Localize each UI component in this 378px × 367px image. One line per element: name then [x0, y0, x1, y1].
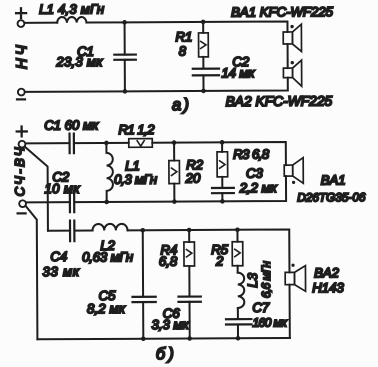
capacitor C1 (a) 23,3 мк [114, 55, 136, 60]
svg-text:23,3 мк: 23,3 мк [55, 54, 103, 69]
capacitor C2 (б) 10 мк [70, 193, 74, 213]
svg-text:14 мк: 14 мк [221, 65, 255, 80]
svg-text:R1 1,2: R1 1,2 [118, 122, 155, 137]
node R1 top (a) [201, 20, 206, 25]
svg-text:BA2 KFC-WF225: BA2 KFC-WF225 [226, 94, 333, 110]
wire C5 upper lead (б) [142, 230, 144, 296]
svg-text:20: 20 [185, 171, 201, 186]
svg-text:б): б) [156, 345, 174, 363]
wire woofer top rail right (б) [128, 229, 290, 273]
wire R1 top lead (a) [202, 22, 204, 33]
svg-text:BA1: BA1 [321, 172, 346, 187]
wire woofer top rail left (б) [48, 230, 70, 232]
wire top rail right (a) [86, 21, 287, 33]
svg-text:D26TG35-06: D26TG35-06 [297, 190, 366, 204]
svg-text:6,8: 6,8 [159, 254, 178, 269]
terminal - (minus, circuit б) [19, 200, 26, 207]
wire C1 branch lower (a) [124, 60, 126, 92]
node R3 top (б) [220, 140, 225, 145]
svg-text:L3: L3 [245, 272, 260, 287]
svg-text:160 мк: 160 мк [252, 315, 288, 329]
inductor L2 (б) 0,63 мГн [93, 224, 128, 231]
svg-text:R1: R1 [175, 29, 192, 44]
wire top rail left (a) [24, 22, 57, 24]
node C5 top (б) [140, 228, 145, 233]
resistor R5 (б) 2 ohm 5W [232, 242, 243, 266]
svg-text:H143: H143 [312, 280, 344, 295]
svg-text:10 мк: 10 мк [44, 181, 80, 196]
wire R2 bottom lead (б) [173, 184, 175, 202]
capacitor C4 (б) 33 мк [70, 221, 74, 242]
svg-text:BA1 KFC-WF225: BA1 KFC-WF225 [231, 4, 334, 20]
wire mid top rail right of R1 (б) [152, 142, 286, 166]
svg-text:33 мк: 33 мк [42, 264, 79, 279]
wire R1 to C2 (a) [202, 57, 204, 69]
terminal - (minus, circuit a) [18, 89, 25, 96]
wire BA2 bottom lead (б) [289, 285, 291, 338]
node C5 bottom (б) [141, 336, 146, 341]
terminal + (plus, circuit б) [19, 141, 26, 148]
svg-text:R3 6,8: R3 6,8 [233, 147, 270, 162]
wire C3 bottom lead (б) [221, 193, 223, 201]
wire bottom rail (б) [37, 338, 289, 339]
node C7 bottom (б) [236, 336, 241, 341]
capacitor C7 (б) 160 мк [226, 319, 251, 324]
svg-text:2,2 мк: 2,2 мк [239, 180, 278, 195]
wire C4 to L2 (б) [75, 230, 93, 232]
wire R4 to C6 (б) [188, 266, 190, 296]
node C3 bottom (б) [220, 199, 225, 204]
wire C2 bottom lead (a) [202, 75, 204, 91]
node L1 top (б) [104, 141, 109, 146]
node C6 bottom (б) [187, 336, 192, 341]
capacitor C6 (б) 3,3 мк [178, 297, 200, 302]
capacitor C3 (б) 2,2 мк [212, 188, 234, 193]
svg-text:L1 4,3 мГн: L1 4,3 мГн [39, 1, 104, 16]
svg-text:C3: C3 [246, 166, 264, 181]
node C1 bottom (a) [123, 89, 128, 94]
loudspeaker BA2 KFC-WF225 (a) [283, 68, 292, 78]
node C1 top (a) [122, 20, 127, 25]
wire R3 to C3 (б) [221, 177, 223, 188]
wire L3 to C7 (б) [237, 308, 239, 319]
node R2 bottom (б) [172, 199, 177, 204]
svg-text:6,6 мГн: 6,6 мГн [259, 261, 273, 298]
wire from + terminal down to woofer rail (б) [25, 147, 48, 231]
wire mid top rail left (б) [25, 142, 69, 144]
svg-text:0,3 мГн: 0,3 мГн [114, 172, 157, 187]
capacitor C5 (б) 8,2 мк [132, 297, 155, 302]
wire from - terminal down to bottom rail (б) [26, 206, 38, 340]
wire C6 lower lead (б) [189, 302, 191, 339]
node L1 bottom (б) [104, 200, 109, 205]
wire between speakers (a) [287, 44, 289, 68]
node C2 bottom (a) [201, 89, 206, 94]
svg-text:НЧ: НЧ [13, 44, 30, 69]
svg-text:СЧ-ВЧ: СЧ-ВЧ [12, 147, 27, 196]
wire R5 to L3 (б) [237, 266, 239, 273]
loudspeaker BA1 D26TG35-06 (б) [284, 165, 293, 176]
loudspeaker BA2 H143 (б) [285, 272, 294, 284]
inductor L1 (б) 0,3 мГн [106, 143, 113, 202]
svg-text:8,2 мк: 8,2 мк [87, 301, 126, 316]
wire bottom rail (a) [25, 78, 287, 92]
resistor R2 (б) 20 ohm 5W [169, 161, 180, 184]
wire R3 top lead (б) [221, 142, 223, 151]
wire C7 lower lead (б) [237, 324, 239, 338]
wire mid top rail to R1 (б) [74, 142, 129, 144]
inductor L3 (б) 6,6 мГн [238, 273, 245, 308]
wire C1 branch upper (a) [124, 22, 126, 54]
svg-text:3,3 мк: 3,3 мк [151, 317, 189, 332]
svg-text:0,63 мГн: 0,63 мГн [82, 249, 133, 264]
capacitor C1 (б) 60 мк [70, 134, 74, 154]
node R2 top (б) [172, 140, 177, 145]
wire R4 top lead (б) [188, 230, 190, 242]
svg-text:8: 8 [179, 44, 187, 59]
svg-text:2: 2 [215, 253, 224, 268]
capacitor C2 (a) 14 мк [193, 69, 219, 76]
node R5 top (б) [235, 227, 240, 232]
resistor R1 (б) 1,2 ohm 5W [129, 139, 153, 148]
resistor R4 (б) 6,8 ohm 5W [184, 242, 195, 266]
resistor R3 (б) 6,8 ohm 5W [217, 152, 228, 177]
wire R2 top lead (б) [173, 143, 175, 161]
svg-text:C7: C7 [252, 300, 270, 315]
node R4 top (б) [187, 228, 192, 233]
inductor L1 (a) 4,3 мГн [57, 17, 86, 23]
svg-text:C4: C4 [50, 249, 67, 264]
svg-text:BA2: BA2 [314, 265, 340, 280]
svg-text:а): а) [172, 96, 189, 114]
wire mid bottom rail left (б) [26, 201, 69, 203]
resistor R1 (a) 8 ohm 5W [199, 33, 209, 57]
wire C5 lower lead (б) [142, 302, 144, 339]
terminal + (plus, circuit a) [18, 20, 25, 27]
wire mid bottom rail right (б) [74, 176, 286, 202]
wire R5 top lead (б) [236, 230, 238, 242]
svg-text:C1 60 мк: C1 60 мк [44, 117, 99, 132]
